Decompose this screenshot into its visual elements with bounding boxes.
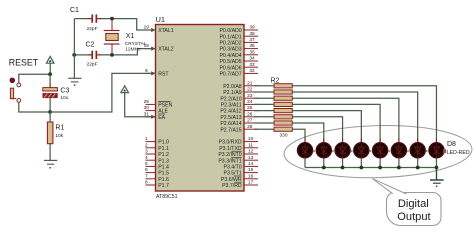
hidden label remnant [426,150,428,152]
LED D6 [391,138,406,158]
svg-text:32: 32 [249,68,255,74]
resistor R1 10k [47,122,64,144]
svg-text:22pF: 22pF [87,26,98,32]
hidden label remnant [407,150,409,152]
svg-text:37: 37 [249,37,255,43]
callout bubble "Digital Output" [372,179,441,226]
ground (C1/C2) [68,78,81,86]
pin P2.5/A13 (26) [220,111,258,121]
wire R2 output 4 to LED D5 [292,104,380,143]
junction dot rail [341,166,345,170]
svg-text:P2.1/A9: P2.1/A9 [223,90,242,96]
pin P2.2/A10 (23) [220,93,258,103]
capacitor C3 10u (electrolytic) [43,88,70,101]
pin PSEN (29) [144,99,173,109]
crystal X1 12MHz [104,31,147,53]
LED D3 [335,138,350,158]
pin P0.2/AD2 (37) [219,37,258,47]
wire RST rail to R1 [49,112,51,122]
junction dot rail [322,166,326,170]
svg-text:35: 35 [249,49,255,55]
wire P2.3 to R2 input [254,103,274,105]
svg-text:P2.6/A14: P2.6/A14 [220,121,241,127]
pin P1.0 (1) [145,136,169,146]
pin P3.7/RD (17) [222,180,258,190]
pin P3.1/TXD (11) [219,142,258,152]
pin P1.7 (8) [145,180,169,190]
svg-text:C3: C3 [60,88,69,95]
wire C3 to RST rail [49,98,51,112]
wire C1/C2 ground column [73,19,75,79]
pin P2.6/A14 (27) [220,118,258,128]
wire R2 output 1 to LED D8 [292,86,436,144]
wire R2 output 7 to LED D2 [292,123,323,143]
svg-text:P0.5/AD5: P0.5/AD5 [219,59,241,65]
pin P3.4/T0 (14) [224,161,258,171]
svg-text:27: 27 [247,118,253,124]
svg-text:12MHz: 12MHz [125,46,141,52]
pin P1.3 (4) [145,155,169,165]
junction dot rail [397,166,401,170]
svg-text:10u: 10u [60,95,68,101]
wire LED D4 cathode to rail [360,158,362,168]
power +5V arrow (reset circuit) [46,56,54,74]
wire LED D3 cathode to rail [342,158,344,168]
svg-text:Digital: Digital [398,198,429,210]
pin P0.5/AD5 (34) [219,56,258,66]
pin P0.7/AD7 (32) [219,68,258,78]
LED D7 [410,138,425,158]
svg-text:AT89C51: AT89C51 [156,194,178,200]
junction dot C2/crystal [110,53,114,57]
push button (RESET) [10,78,21,102]
svg-text:P2.0/A8: P2.0/A8 [223,84,242,90]
ground (R1) [44,160,57,168]
wire RST rail to RST pin [50,73,155,112]
wire P2.1 to R2 input [254,91,274,93]
svg-text:P3.7/RD: P3.7/RD [222,183,242,189]
pin EA (31) [144,111,166,121]
svg-text:P1.3: P1.3 [158,158,169,164]
svg-text:5: 5 [145,161,148,167]
wire R2 output 2 to LED D7 [292,92,417,143]
hidden label remnant [388,150,390,152]
svg-text:7: 7 [145,173,148,179]
svg-text:P0.6/AD6: P0.6/AD6 [219,65,241,71]
svg-text:P2.5/A13: P2.5/A13 [220,115,241,121]
wire P2.4 to R2 input [254,110,274,112]
wire C1 left to ground column [75,18,92,20]
svg-text:CRYSTAL: CRYSTAL [125,41,147,47]
svg-text:EA: EA [158,115,165,121]
svg-text:22pF: 22pF [87,61,98,67]
wire LED D1 cathode to rail [304,158,306,168]
svg-text:4: 4 [145,155,148,161]
wire LED D7 cathode to rail [417,158,419,168]
svg-text:P3.0/RXD: P3.0/RXD [219,140,242,146]
junction dot rail [378,166,382,170]
svg-text:P0.7/AD7: P0.7/AD7 [219,72,241,78]
wire P2.5 to R2 input [254,116,274,118]
pin P1.6 (7) [145,173,169,183]
svg-text:R1: R1 [55,125,64,132]
capacitor C1 22pF [70,7,98,32]
resistor pack R2 330 [271,78,293,139]
svg-text:29: 29 [144,99,150,105]
hidden label remnant [370,150,372,152]
wire C2 left to ground column [74,54,91,56]
microcontroller U1 AT89C51 body [156,15,245,200]
hidden label remnant [313,150,315,152]
svg-text:8: 8 [145,180,148,186]
svg-text:P1.7: P1.7 [158,183,169,189]
svg-text:P2.2/A10: P2.2/A10 [220,96,241,102]
junction dot VCC/button/C3 [48,72,52,76]
wire R2 output 6 to LED D3 [292,117,342,144]
pin P2.1/A9 (22) [223,87,258,97]
svg-text:P3.4/T0: P3.4/T0 [224,165,242,171]
svg-text:21: 21 [247,80,253,86]
LED D2 [316,138,331,158]
wire R2 output 8 to LED D1 [292,129,305,143]
svg-text:P2.3/A11: P2.3/A11 [221,103,242,109]
wire EA arrow to EA pin [125,93,156,117]
svg-text:1: 1 [145,136,148,142]
svg-text:14: 14 [248,161,254,167]
svg-text:6: 6 [145,167,148,173]
pin P1.1 (2) [145,142,169,152]
LED D4 [354,138,369,158]
svg-text:P0.3/AD3: P0.3/AD3 [219,47,241,53]
wire C1 right to XTAL1 [97,19,155,30]
junction dot C2/ground column [72,53,76,57]
junction dot rail [435,166,439,170]
svg-text:X1: X1 [126,33,135,40]
svg-text:P1.1: P1.1 [158,146,169,152]
hidden label remnant [332,150,334,152]
svg-text:17: 17 [248,180,254,186]
svg-text:XTAL2: XTAL2 [158,47,174,53]
svg-text:C2: C2 [86,42,95,49]
svg-text:22: 22 [247,87,253,93]
pin P3.5/T1 (15) [224,167,258,177]
pin ALE (30) [144,105,169,115]
svg-text:38: 38 [249,31,255,37]
wire R2 output 5 to LED D4 [292,111,361,144]
svg-text:28: 28 [247,124,253,130]
junction dot C1/crystal [110,17,114,21]
wire rail to ground [436,168,438,181]
svg-text:P2.7/A15: P2.7/A15 [220,127,241,133]
svg-text:33: 33 [249,62,255,68]
LED D8 [429,138,444,158]
pin XTAL2 (18) [144,43,174,53]
svg-text:3: 3 [145,149,148,155]
svg-text:15: 15 [248,167,254,173]
svg-text:Output: Output [397,211,430,223]
svg-text:10k: 10k [55,133,63,139]
wire crystal bottom pin [111,44,113,55]
wire button top to VCC junction [19,74,50,83]
wire crystal top pin [111,19,113,31]
wire R1 to ground [49,144,51,161]
pin P0.1/AD1 (38) [219,31,258,41]
power +5V arrow (EA pin) [121,86,129,93]
svg-text:25: 25 [247,105,253,111]
pin P0.3/AD3 (36) [219,43,258,53]
pin P2.3/A11 (24) [221,99,258,109]
svg-text:24: 24 [247,99,253,105]
junction dot rail [416,166,420,170]
wire LED D6 cathode to rail [398,158,400,168]
svg-text:D8: D8 [447,141,456,148]
wire P2.7 to R2 input [254,128,274,130]
svg-text:XTAL1: XTAL1 [158,28,174,34]
svg-text:P0.0/AD0: P0.0/AD0 [219,28,241,34]
LED D1 [298,138,313,158]
svg-text:39: 39 [249,25,255,31]
pin P0.4/AD4 (35) [219,49,258,59]
pin P2.4/A12 (25) [220,105,258,115]
svg-text:LED-RED: LED-RED [447,150,470,156]
pin P3.0/RXD (10) [219,136,258,146]
wire LED D8 cathode to rail [435,158,437,168]
svg-text:P0.4/AD4: P0.4/AD4 [219,53,241,59]
wire button bottom to RST rail [19,102,50,112]
capacitor C2 22pF [86,42,98,68]
wire LED D2 cathode to rail [323,158,325,168]
svg-text:R2: R2 [271,78,280,85]
svg-text:P0.1/AD1: P0.1/AD1 [219,34,241,40]
pin P1.2 (3) [145,149,169,159]
pin P3.2/INT0 (12) [218,149,258,159]
LED D5 [373,138,388,158]
svg-text:C1: C1 [70,7,79,14]
pin P2.7/A15 (28) [220,124,258,134]
pin XTAL1 (19) [144,25,174,34]
pin P0.0/AD0 (39) [219,25,258,34]
pin P0.6/AD6 (33) [219,62,258,72]
wire P2.0 to R2 input [254,85,274,87]
svg-text:PSEN: PSEN [158,103,172,109]
wire VCC junction to C3 [49,74,51,87]
svg-text:330: 330 [280,133,288,139]
annotation ellipse around LED row [283,123,472,180]
wire P2.2 to R2 input [254,97,274,99]
svg-text:11: 11 [248,142,253,148]
wire C2 right to XTAL2 [97,49,155,55]
hidden label remnant [351,150,353,152]
svg-text:U1: U1 [156,15,166,24]
svg-text:34: 34 [249,56,255,62]
svg-text:16: 16 [248,173,254,179]
pin P3.3/INT1 (13) [218,155,258,165]
svg-text:26: 26 [247,111,253,117]
ground (LED rail) [430,180,444,187]
pin P2.0/A8 (21) [223,80,258,90]
svg-text:P1.5: P1.5 [158,171,169,177]
wire P2.6 to R2 input [254,122,274,124]
svg-text:36: 36 [249,43,255,49]
svg-text:RESET: RESET [9,57,39,67]
junction dot rail [359,166,363,170]
svg-text:P0.2/AD2: P0.2/AD2 [219,41,241,47]
svg-text:2: 2 [145,142,148,148]
pin P3.6/WR (16) [221,173,258,183]
pin P1.5 (6) [145,167,169,177]
wire R2 output 3 to LED D6 [292,98,399,143]
svg-text:23: 23 [247,93,253,99]
pin P1.4 (5) [145,161,169,171]
svg-text:P1.0: P1.0 [158,140,169,146]
svg-text:12: 12 [248,149,254,155]
svg-text:P1.4: P1.4 [158,165,169,171]
junction dot C3/R1/RST rail [48,110,52,114]
label LED-RED [443,149,470,156]
svg-text:P2.4/A12: P2.4/A12 [220,109,241,115]
svg-text:30: 30 [144,105,150,111]
svg-text:10: 10 [248,136,254,142]
wire LED D5 cathode to rail [379,158,381,168]
svg-text:P1.2: P1.2 [158,152,169,158]
pin RST (9) [145,68,169,78]
svg-text:P3.3/INT1: P3.3/INT1 [218,158,241,164]
svg-text:13: 13 [248,155,254,161]
svg-text:RST: RST [158,72,169,78]
svg-text:P1.6: P1.6 [158,177,169,183]
wire LED cathode rail [305,167,437,169]
